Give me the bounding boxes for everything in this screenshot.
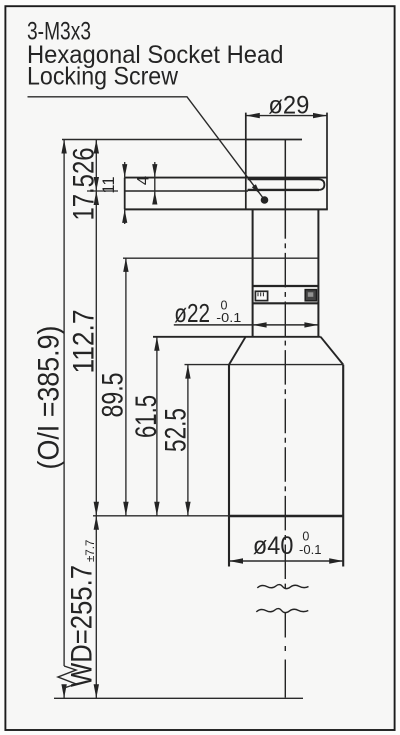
dim ø22 label bbox=[174, 298, 241, 328]
dim 89.5 line bbox=[125, 258, 127, 516]
dim ø22 leader + line bbox=[174, 324, 319, 326]
leader underline bbox=[28, 97, 264, 199]
top cylinder ø29 bbox=[245, 113, 247, 210]
knurl band lines bbox=[253, 285, 319, 287]
focal plane line bbox=[54, 697, 303, 699]
flange seat line bbox=[125, 190, 248, 192]
taper left bbox=[229, 337, 246, 365]
joint line bbox=[123, 257, 318, 259]
dim 52.5 line bbox=[187, 365, 189, 516]
dim ø40 label bbox=[253, 529, 322, 560]
locking screw slot bbox=[248, 179, 325, 190]
centerline bbox=[284, 140, 286, 239]
leader dot bbox=[261, 196, 269, 204]
taper right bbox=[321, 337, 344, 365]
bottom extension line bbox=[93, 515, 229, 517]
ø40 top line + ext 52.5 bbox=[185, 364, 344, 366]
break squiggle 2 bbox=[256, 609, 308, 613]
cylinder ø40 bbox=[228, 365, 230, 567]
set screw right bbox=[305, 290, 316, 301]
cylinder ø22 bbox=[252, 209, 254, 337]
dim 61.5 line bbox=[156, 337, 158, 516]
flange bbox=[125, 177, 327, 179]
zigzag break on O/I bbox=[58, 666, 76, 688]
leader arrowhead bbox=[252, 184, 261, 194]
note text 3-M3x3 bbox=[27, 19, 284, 91]
seat extension stub bbox=[87, 190, 118, 192]
set screw left bbox=[255, 291, 267, 300]
dim 4 arrows bbox=[154, 162, 156, 204]
bottom edge bbox=[229, 515, 343, 518]
break squiggle 1 bbox=[257, 585, 308, 589]
top extension line bbox=[62, 139, 246, 141]
dim O/I line bbox=[63, 140, 65, 667]
dim line 17.526/112.7/WD bbox=[95, 140, 97, 699]
dim ø29 line bbox=[246, 115, 327, 117]
dim 11 arrows bbox=[124, 162, 126, 224]
dim ø40 line bbox=[229, 560, 343, 562]
shoulder line bbox=[153, 336, 321, 338]
